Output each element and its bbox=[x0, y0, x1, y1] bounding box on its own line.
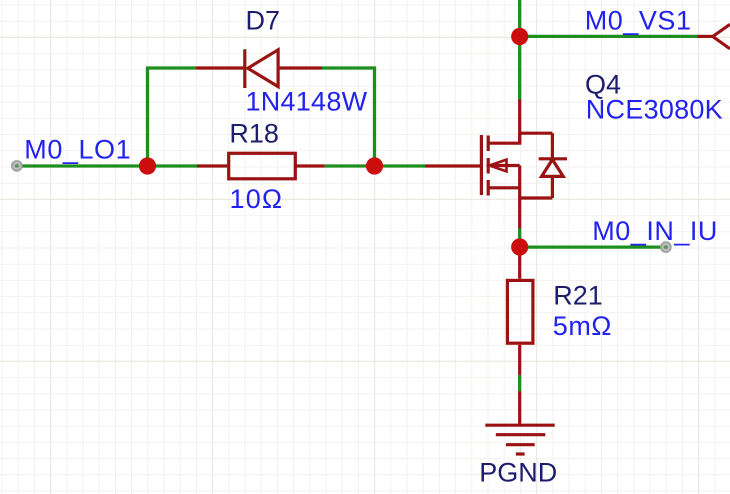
wire vertical M0_VS1 drop from top edge bbox=[518, 0, 521, 99]
wire R18 right to junction B to mosfet gate bbox=[325, 164, 425, 167]
junction dot C (source / M0_IN_IU) bbox=[511, 238, 528, 255]
pin endpoint M0_LO1 bbox=[11, 161, 22, 172]
resistor R21 bbox=[507, 247, 533, 375]
channel bar top bbox=[487, 136, 490, 152]
svg-text:R18: R18 bbox=[229, 119, 279, 149]
wire source to junction C bbox=[518, 229, 521, 248]
svg-text:R21: R21 bbox=[553, 280, 603, 310]
source connect bbox=[518, 166, 521, 199]
gate lead bbox=[425, 164, 481, 167]
svg-text:M0_VS1: M0_VS1 bbox=[585, 6, 692, 36]
svg-text:M0_LO1: M0_LO1 bbox=[24, 135, 131, 165]
wire M0_VS1 horizontal bbox=[520, 35, 698, 38]
channel bar bottom bbox=[487, 180, 490, 196]
port arrow at right edge of M0_VS1 bbox=[698, 24, 730, 49]
wire top-left loop left vertical bbox=[146, 68, 149, 166]
drain connect bbox=[488, 133, 520, 143]
drain lead bbox=[518, 99, 521, 143]
svg-text:M0_IN_IU: M0_IN_IU bbox=[592, 216, 718, 246]
wire top-right of diode bbox=[322, 66, 376, 69]
diode D7 bbox=[196, 49, 322, 88]
junction dot B (R18 right / loop) bbox=[366, 157, 383, 174]
arrow line bbox=[490, 164, 520, 167]
svg-text:1N4148W: 1N4148W bbox=[246, 87, 368, 117]
wire below R21 bbox=[518, 375, 521, 391]
wire top-left loop top-left segment bbox=[146, 66, 196, 69]
channel bar middle bbox=[487, 158, 490, 174]
junction dot top (M0_VS1 / drain) bbox=[511, 28, 528, 45]
svg-text:D7: D7 bbox=[246, 6, 281, 36]
resistor R18 bbox=[197, 153, 325, 179]
arrow head bbox=[490, 160, 507, 172]
wire M0_LO1 horizontal run bbox=[17, 164, 197, 167]
svg-text:5mΩ: 5mΩ bbox=[553, 311, 612, 341]
svg-text:10Ω: 10Ω bbox=[230, 184, 284, 214]
gate bar bbox=[480, 135, 483, 195]
transistor Q4 (NMOS) bbox=[425, 99, 520, 228]
wire right loop vertical into junction B bbox=[373, 68, 376, 166]
pin endpoint M0_IN_IU bbox=[661, 242, 672, 253]
junction dot A (M0_LO1 / loop) bbox=[139, 157, 156, 174]
ground PGND bbox=[485, 391, 554, 454]
svg-text:PGND: PGND bbox=[479, 458, 557, 488]
svg-text:NCE3080K: NCE3080K bbox=[586, 94, 723, 124]
source lead bbox=[518, 198, 521, 229]
body diode of Q4 bbox=[520, 133, 567, 198]
wire M0_IN_IU horizontal bbox=[520, 245, 666, 248]
